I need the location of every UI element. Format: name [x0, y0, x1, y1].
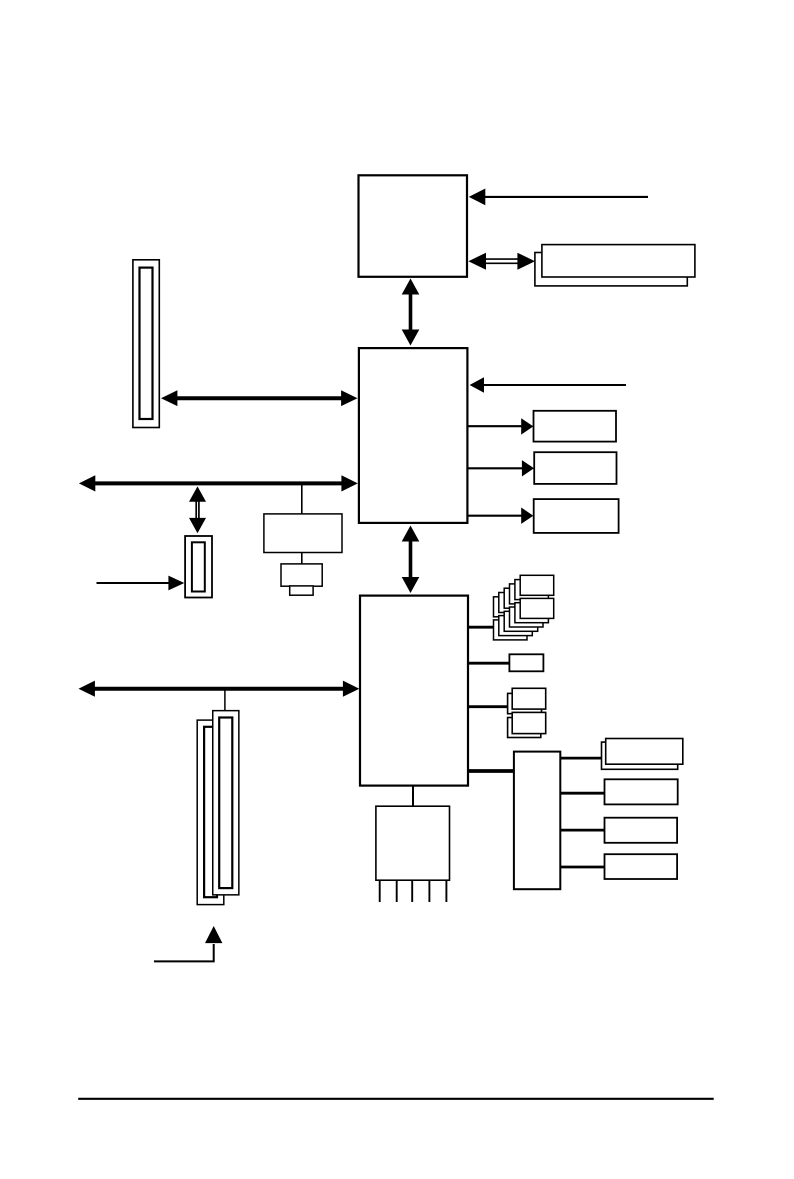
USB port stack (6 cascaded pairs) [494, 575, 554, 640]
wire: arrow into AMR slot [97, 576, 185, 591]
wire: thick vertical bidirectional arrow north bridge to south bridge [402, 526, 420, 594]
comb pin 1 [379, 880, 381, 902]
SATA port stack (2 cascaded pairs) [508, 688, 546, 737]
AMR slot (inner) [192, 542, 205, 591]
wire: south bridge to SATA stack [468, 705, 508, 708]
memory module box (shadow) [535, 253, 687, 286]
LAN box [509, 654, 543, 671]
wire: south bridge to LAN box [468, 662, 509, 665]
wire: PCI bus thick bidirectional arrow (lower) [79, 681, 360, 697]
AGP slot (outer) [133, 260, 159, 428]
super IO block U4 [514, 752, 560, 890]
AGP slot (inner) [140, 268, 153, 419]
footer rule [78, 1098, 714, 1100]
PCI slot rear (outer) [197, 720, 224, 905]
wire: arrow north bridge to display port box 1 [468, 418, 533, 434]
wire: PCI bus thick bidirectional arrow (upper) [79, 475, 358, 491]
PCI slot front (outer) [213, 711, 239, 895]
memory module box (front) [542, 245, 695, 277]
audio jack box [281, 564, 322, 586]
north bridge block U2 [359, 348, 468, 523]
wire: south bridge down to BIOS comb box [412, 787, 414, 807]
display port box 1 [534, 411, 617, 442]
IO port box D [605, 854, 678, 879]
comb pin 3 [411, 880, 413, 902]
wire: super IO to port box B [561, 792, 605, 795]
comb pin 2 [396, 880, 398, 902]
comb pin 5 [445, 880, 447, 902]
audio jack small box [290, 586, 313, 595]
wire: arrow north bridge to display port box 3 [468, 508, 533, 524]
wire: super IO to port box D [561, 866, 605, 869]
wire: super IO to port box C [561, 829, 605, 832]
BIOS comb box [376, 806, 450, 880]
wire: thick line south bridge to super IO [468, 769, 514, 773]
wire: thick bidirectional arrow AGP slot to north bridge [161, 390, 358, 406]
wire: double-line bidirectional arrow CPU to FSB box [468, 253, 535, 270]
wire: south bridge to USB stack [468, 626, 494, 629]
IO port box A (front) [606, 739, 683, 765]
audio codec box [264, 514, 342, 553]
wire: thick vertical bidirectional arrow CPU to north bridge [402, 279, 420, 346]
PCI slot rear (inner) [204, 727, 217, 897]
PCI slot front (inner) [219, 718, 232, 889]
wire: arrow into north bridge right side [470, 377, 626, 393]
wire: up arrow into PCI slot from below [154, 926, 222, 961]
IO port box B [605, 779, 678, 804]
wire: junction drop from PCI bus to audio codec [301, 485, 303, 514]
display port box 2 [534, 452, 616, 484]
IO port box C [605, 818, 678, 843]
wire: junction drop from lower bus to PCI slots [224, 690, 226, 710]
south bridge block U3 [360, 596, 468, 786]
wire: codec to connector [301, 553, 303, 564]
display port box 3 [534, 499, 619, 533]
wire: arrow into CPU right side [469, 189, 648, 206]
AMR slot (outer) [185, 536, 212, 598]
wire: arrow north bridge to display port box 2 [468, 460, 534, 476]
IO port box A (shadow) [602, 742, 678, 769]
CPU block U1 [359, 175, 468, 276]
wire: double-line bidirectional arrow PCI bus to AMR slot [189, 486, 206, 533]
wire: super IO to port box A [561, 757, 602, 760]
comb pin 4 [428, 880, 430, 902]
